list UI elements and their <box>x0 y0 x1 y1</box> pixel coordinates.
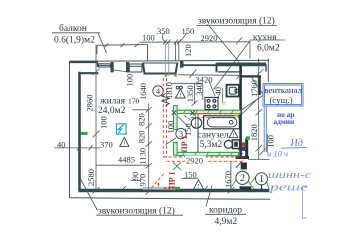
svg-text:90: 90 <box>130 172 140 181</box>
svg-text:2920: 2920 <box>201 33 218 43</box>
left vertical dimension line 2860/2580 <box>93 45 100 194</box>
yellow highlighter marks <box>222 101 238 116</box>
leaders vent duct label <box>242 75 264 115</box>
svg-text:5,3м2: 5,3м2 <box>200 140 223 150</box>
svg-text:!: ! <box>179 93 181 99</box>
svg-text:ПР 1: ПР 1 <box>168 171 177 188</box>
svg-text:1760: 1760 <box>249 80 259 97</box>
svg-text:340: 340 <box>194 83 204 96</box>
kitchen window jamb <box>216 63 218 72</box>
wall mullion pier 2 <box>126 62 129 72</box>
svg-text:1820: 1820 <box>249 124 259 141</box>
red dashed demolished bath wall pair <box>191 114 240 118</box>
bathroom door swing <box>178 117 190 129</box>
leader sound insulation top <box>209 26 239 62</box>
svg-text:балкон: балкон <box>59 23 87 34</box>
red dashes on bottom wall <box>164 187 174 189</box>
blue duct mark <box>242 147 245 151</box>
svg-text:1670: 1670 <box>223 171 233 188</box>
red dashed mark at duct <box>238 149 243 154</box>
svg-text:и 10 ч: и 10 ч <box>267 149 288 159</box>
1670 dimension line <box>228 162 234 193</box>
green hatch ticks <box>182 110 234 157</box>
kitchen sink <box>227 85 240 97</box>
red dashed demolished wall vertical pair <box>163 78 166 157</box>
svg-text:ПР 1: ПР 1 <box>180 135 189 152</box>
kitchen window line <box>184 64 216 66</box>
svg-text:820: 820 <box>137 131 147 144</box>
warning triangle corridor <box>194 180 204 189</box>
left exterior wall <box>78 72 81 191</box>
green leader legs circles 2 and 1 <box>230 177 270 190</box>
svg-text:2860: 2860 <box>85 95 95 112</box>
svg-text:!: ! <box>233 133 235 139</box>
svg-text:1130: 1130 <box>138 148 148 165</box>
bottom exterior wall <box>79 189 270 192</box>
top-left wall inner edge <box>80 72 99 74</box>
red dashed leader to standpipe <box>184 115 192 120</box>
svg-text:!: ! <box>198 184 200 190</box>
partition door leaf <box>166 138 177 145</box>
node circle 4 <box>153 86 163 96</box>
svg-text:шинн-с: шинн-с <box>268 170 312 181</box>
kitchen / bathroom right wall <box>239 65 242 159</box>
svg-text:150: 150 <box>182 26 195 36</box>
label sound insulation top <box>197 16 278 27</box>
red duct mark <box>242 142 245 146</box>
svg-text:100: 100 <box>166 121 176 134</box>
node circle 3 <box>176 128 186 138</box>
svg-text:4,9м2: 4,9м2 <box>215 217 238 227</box>
window W1 living room <box>99 64 111 67</box>
mid vertical dimension chain 820/820/1130/970 <box>133 104 153 195</box>
svg-text:1: 1 <box>259 174 264 185</box>
svg-text:2580: 2580 <box>86 169 96 186</box>
stem under circle 1 <box>261 185 263 191</box>
svg-text:24,0м2: 24,0м2 <box>98 106 126 116</box>
wall mullion pier 1 <box>111 62 114 72</box>
ticks on bottom wall <box>120 186 208 192</box>
right vertical dimension line 1760/1820 <box>250 41 264 160</box>
top-left wall corner segment <box>70 61 98 67</box>
break zigzag symbol <box>162 94 169 107</box>
svg-text:100: 100 <box>125 74 135 87</box>
white backing mid 2920 label <box>185 156 206 165</box>
vent shaft lower pier <box>245 138 248 156</box>
svg-text:4485: 4485 <box>118 155 135 165</box>
blue stamp text <box>274 110 296 126</box>
facade outer thin lines (left / top / bottom) <box>70 59 271 200</box>
toilet <box>224 140 239 149</box>
green duct mark <box>246 136 250 140</box>
node circle 2 <box>236 171 249 184</box>
blue underline stroke <box>281 147 307 150</box>
tick at corridor stub <box>236 161 243 168</box>
svg-text:админ: админ <box>274 117 296 126</box>
balcony parapet outline with rail ticks <box>97 44 148 61</box>
warning triangle living room <box>120 137 129 146</box>
label sound insulation bottom <box>96 205 183 216</box>
old wall gray band on bottom wall <box>143 187 180 190</box>
label corridor <box>205 206 246 227</box>
small red symbol above bottom wall <box>157 183 159 187</box>
balcony door threshold channel <box>143 63 178 74</box>
exclamation marks in triangles <box>123 93 234 190</box>
3420 dimension line <box>178 70 242 80</box>
svg-text:звукоизоляция (12): звукоизоляция (12) <box>198 16 275 27</box>
blue pen double vertical <box>264 106 266 152</box>
doorway notch on bottom wall <box>240 186 252 189</box>
vent shaft top wall <box>242 75 262 77</box>
svg-text:(сущ.): (сущ.) <box>270 95 293 105</box>
top dimension line <box>140 33 251 61</box>
svg-text:820: 820 <box>137 113 147 126</box>
svg-text:370: 370 <box>100 139 113 149</box>
svg-text:2: 2 <box>240 173 245 184</box>
svg-text:6,0м2: 6,0м2 <box>257 44 280 54</box>
svg-text:звукоизоляция (12): звукоизоляция (12) <box>98 205 175 216</box>
wall pier right of balcony door <box>180 61 184 68</box>
vent shaft right pier <box>258 77 261 95</box>
100 dimension line right <box>260 134 268 155</box>
gray riser extension pair <box>165 43 168 77</box>
bathroom wall bottom cap <box>236 156 250 159</box>
leader kitchen inner <box>209 80 216 96</box>
leader balcony label <box>98 33 107 53</box>
label balcony <box>52 23 100 46</box>
blue margin bracket <box>303 187 307 219</box>
svg-text:3420: 3420 <box>196 75 213 85</box>
svg-text:2920: 2920 <box>186 155 203 165</box>
red dashed demolished wall horizontal pair <box>163 157 244 161</box>
green partition bath/corridor <box>177 152 238 155</box>
electric panel icon <box>116 124 126 134</box>
svg-text:40: 40 <box>57 139 66 149</box>
standpipe circle <box>191 118 201 128</box>
svg-text:150: 150 <box>184 169 197 179</box>
node circle 1 <box>256 173 268 185</box>
label kitchen <box>250 33 286 54</box>
green mark on bottom wall <box>175 187 180 190</box>
svg-text:100: 100 <box>142 32 155 42</box>
corridor wall stub <box>241 163 247 170</box>
bathtub <box>204 116 240 129</box>
150 corridor mini dimension <box>182 177 199 179</box>
svg-text:350: 350 <box>157 26 170 36</box>
label living room <box>98 97 126 117</box>
svg-text:150: 150 <box>183 123 193 136</box>
window W2 living room <box>129 64 142 72</box>
svg-text:120: 120 <box>183 44 193 57</box>
svg-text:100: 100 <box>266 135 276 148</box>
warning triangle bathroom <box>229 130 238 138</box>
label bathroom <box>198 130 229 149</box>
green partition vertical upper <box>174 106 178 130</box>
green ticks on top wall <box>166 74 176 77</box>
gas meter circles <box>176 86 182 89</box>
svg-text:0.6(1,9)м2: 0.6(1,9)м2 <box>54 35 95 46</box>
kitchen dimension lines 1810/1350/340 <box>172 83 203 106</box>
X ticks on green partition <box>172 110 195 115</box>
green partition kitchen/bath <box>177 110 240 113</box>
4485 dimension line <box>96 164 149 166</box>
svg-text:1640: 1640 <box>138 83 148 100</box>
svg-text:жилая: жилая <box>99 97 126 107</box>
40/370 dimension line <box>54 145 100 151</box>
red dashed old door swing <box>152 174 165 189</box>
svg-text:1810: 1810 <box>164 82 174 99</box>
horizontal dimension labels <box>57 26 218 179</box>
corridor right threshold line <box>248 159 270 161</box>
red labels PR1 <box>168 135 190 188</box>
stove <box>205 97 218 109</box>
green tick on left wall <box>81 132 88 135</box>
svg-text:40: 40 <box>213 87 223 96</box>
node numbers <box>156 86 264 185</box>
kitchen top exterior wall band <box>217 64 267 72</box>
vertical dimension labels <box>85 44 276 188</box>
90 dimension connector <box>131 180 141 182</box>
leader sound insulation bottom <box>80 178 98 211</box>
green partition vertical lower <box>174 143 178 156</box>
leader kitchen label <box>214 42 250 90</box>
blue vent duct box <box>263 84 303 107</box>
svg-text:!: ! <box>123 142 125 148</box>
svg-text:кухня: кухня <box>253 33 277 43</box>
40 mini dimension kitchen <box>219 88 223 103</box>
standpipe riser line <box>194 112 196 128</box>
green X marker <box>173 162 181 170</box>
balcony door swing <box>114 70 126 72</box>
warning triangle kitchen <box>175 89 185 98</box>
bathroom left thin wall <box>197 112 199 153</box>
vent duct box text <box>264 85 302 105</box>
svg-text:100: 100 <box>98 116 108 129</box>
svg-text:вентканал: вентканал <box>264 85 302 95</box>
leader corridor label <box>206 186 212 207</box>
